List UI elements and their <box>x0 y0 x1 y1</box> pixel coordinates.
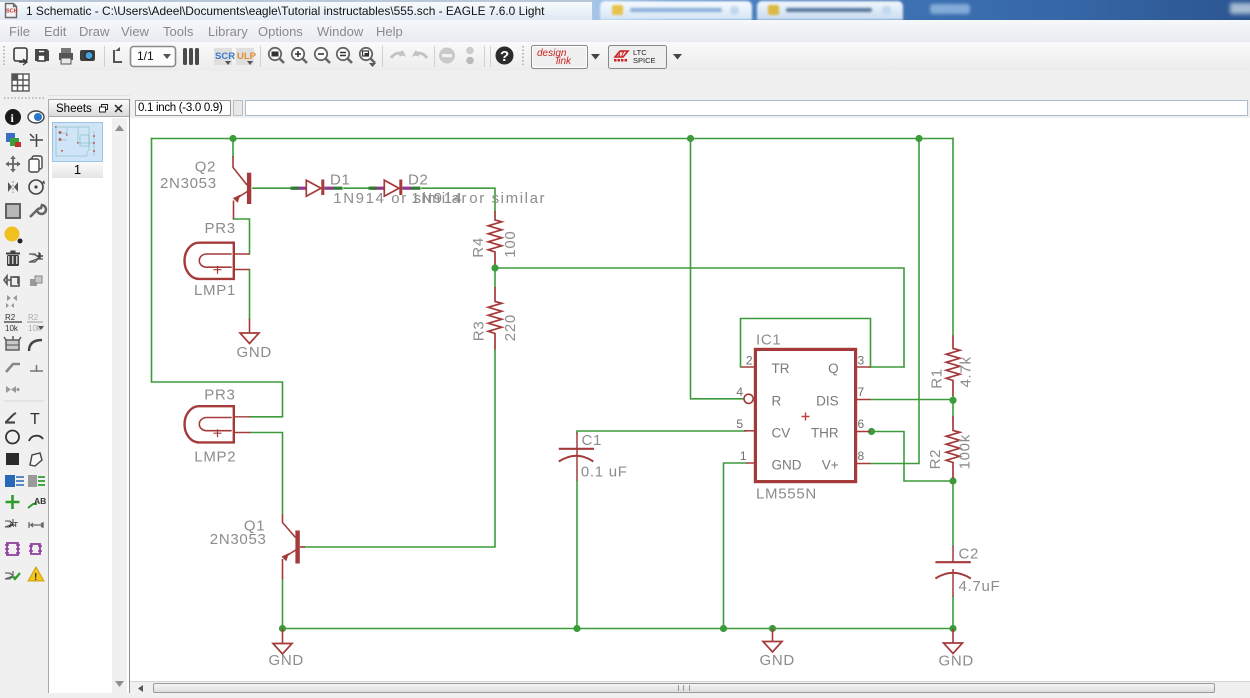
r9: gateswap grayed <box>7 295 17 301</box>
svg-text:0.1 uF: 0.1 uF <box>581 463 628 480</box>
svg-text:IC1: IC1 <box>756 331 781 348</box>
r6: paste <box>5 227 20 242</box>
junction rail at Q1 <box>279 625 286 632</box>
open/new icon <box>14 48 27 61</box>
r18: junction / label <box>6 495 20 509</box>
r7: delete / add <box>6 251 20 267</box>
junction node R4 R3 <box>491 264 498 271</box>
svg-text:SCR: SCR <box>215 51 235 62</box>
svg-text:GND: GND <box>269 652 304 669</box>
wire Q2 collector stub <box>232 139 234 157</box>
IC1 pin stubs left <box>741 367 754 463</box>
svg-text:DIS: DIS <box>816 393 839 408</box>
panel divider <box>129 99 130 693</box>
ground GND at Q1 <box>282 629 284 644</box>
help icon <box>496 47 514 65</box>
wire node row to pin3 column <box>495 268 904 367</box>
capacitor C1 <box>576 433 578 481</box>
r13: wire symbol grayed <box>6 386 16 393</box>
svg-text:47: 47 <box>617 52 625 59</box>
r19: attribute / dimension <box>5 519 16 527</box>
svg-text:GND: GND <box>237 344 272 361</box>
ground GND at IC1 <box>772 629 774 642</box>
junction top rail at V+ column <box>915 135 922 142</box>
zoom redraw <box>337 48 352 63</box>
diode D1 <box>306 180 321 196</box>
svg-text:2: 2 <box>746 353 753 367</box>
wire LMP1 to ground <box>249 270 251 319</box>
design link button <box>532 46 588 69</box>
ground GND at LMP1 <box>249 319 251 334</box>
wire R2 to C2 <box>952 479 954 547</box>
transistor Q2 <box>233 156 251 219</box>
sheet combo <box>131 47 176 67</box>
junction rail at C1 <box>573 625 580 632</box>
wire Q1 emitter to rail <box>282 579 284 629</box>
wire THR pin6 net <box>872 432 954 482</box>
op-amp style IC1 body LM555N <box>755 349 855 481</box>
transistor Q1 <box>283 515 306 580</box>
svg-text:GND: GND <box>772 457 802 472</box>
wire R4 to node junction <box>494 265 496 288</box>
layers icon <box>183 48 199 65</box>
wire top supply rail <box>152 138 954 140</box>
svg-text:5: 5 <box>736 417 743 431</box>
svg-text:R2: R2 <box>28 313 39 322</box>
sheets panel scrollbar <box>112 118 127 693</box>
r21: erc / errors <box>5 571 16 579</box>
wire TR-Q feedback loop <box>741 319 871 368</box>
svg-text:R3: R3 <box>470 321 487 342</box>
diode D2 <box>384 180 399 196</box>
svg-text:?: ? <box>500 48 509 65</box>
svg-text:220: 220 <box>502 314 519 341</box>
SCR button <box>214 48 232 65</box>
wire GND pin1 net <box>724 463 747 629</box>
zoom select <box>360 48 376 67</box>
print icon <box>59 53 73 60</box>
wire reset pin4 net <box>691 139 745 399</box>
svg-text:PR3: PR3 <box>204 387 235 404</box>
wire V+ pin8 net <box>871 139 920 464</box>
r3: move / copy <box>6 156 21 173</box>
junction rail at GND stub <box>769 625 776 632</box>
r2: display / mark <box>6 133 15 142</box>
wire C1 top to CV pin5 <box>577 431 746 433</box>
svg-text:TR: TR <box>772 361 790 376</box>
svg-text:1N914 or similar: 1N914 or similar <box>411 190 546 207</box>
svg-text:GND: GND <box>939 652 974 669</box>
zoom in <box>292 48 307 63</box>
svg-text:CV: CV <box>772 425 791 440</box>
browser behind, right side of title row <box>592 0 1250 20</box>
svg-text:D1: D1 <box>330 172 351 189</box>
svg-text:AT: AT <box>9 520 18 529</box>
separator <box>104 46 106 67</box>
r20: module purple icons <box>5 543 42 555</box>
wire right drop to R1 <box>952 139 954 336</box>
wire DIS pin7 net <box>871 399 954 401</box>
IC1 pin 4 inversion bubble <box>744 394 753 403</box>
capacitor C2 <box>952 546 954 597</box>
svg-text:LM555N: LM555N <box>756 485 817 502</box>
svg-text:D2: D2 <box>408 172 429 189</box>
diode D2 pins <box>369 187 421 190</box>
svg-text:4.7uF: 4.7uF <box>959 578 1001 595</box>
svg-text:!: ! <box>34 572 37 583</box>
svg-text:V+: V+ <box>822 457 839 472</box>
wire R3 to Q1 base <box>304 350 495 548</box>
sheet icon <box>114 50 122 62</box>
resistor R2 <box>946 416 960 479</box>
r16: rect / polygon <box>6 453 19 465</box>
junction rail at C2 <box>949 625 956 632</box>
svg-text:GND: GND <box>760 652 795 669</box>
junction R2 bottom <box>949 477 956 484</box>
r17: bus / net <box>5 475 15 487</box>
svg-text:100k: 100k <box>956 434 973 469</box>
r12: split / invoke <box>6 364 20 372</box>
svg-text:LMP2: LMP2 <box>194 448 236 465</box>
traffic dots grayed <box>466 47 474 55</box>
svg-text:4: 4 <box>736 385 743 399</box>
r5: group / change <box>6 204 20 218</box>
svg-text:C2: C2 <box>959 545 980 562</box>
svg-text:T: T <box>30 411 40 428</box>
IC1 centre plus mark <box>802 413 810 421</box>
svg-text:1/1: 1/1 <box>137 49 154 63</box>
svg-text:AB: AB <box>34 496 46 506</box>
wire Q pin3 extension <box>871 366 905 368</box>
svg-text:1: 1 <box>740 449 747 463</box>
svg-text:R4: R4 <box>470 237 487 258</box>
thumbnail <box>52 122 103 162</box>
svg-text:10k: 10k <box>28 324 42 333</box>
junction top rail at Q2 <box>229 135 236 142</box>
svg-text:R2: R2 <box>927 449 944 470</box>
redo grayed <box>415 51 427 58</box>
svg-text:3: 3 <box>858 353 865 367</box>
stop grayed <box>439 48 455 64</box>
svg-text:2N3053: 2N3053 <box>210 531 267 548</box>
wire Q2 emitter to LMP1 <box>234 219 250 254</box>
grip <box>3 46 5 67</box>
svg-text:SCH: SCH <box>6 9 18 15</box>
svg-text:Q: Q <box>828 361 839 376</box>
wire C2 to bottom rail <box>952 597 954 629</box>
svg-text:LMP1: LMP1 <box>194 282 236 299</box>
svg-text:2N3053: 2N3053 <box>160 175 217 192</box>
svg-text:100: 100 <box>502 231 519 258</box>
svg-text:10k: 10k <box>5 324 19 333</box>
undo grayed <box>391 51 403 58</box>
resistor R4 <box>488 211 502 265</box>
r8: pinswap / replace <box>4 276 18 284</box>
svg-text:ULP: ULP <box>237 51 257 62</box>
svg-text:link: link <box>556 56 572 67</box>
svg-text:4.7k: 4.7k <box>957 356 974 387</box>
junction R1 R2 DIS <box>949 397 956 404</box>
IC1 pin stubs right <box>857 367 871 464</box>
zoom out <box>315 48 330 63</box>
r4: mirror / rotate <box>8 182 18 192</box>
lamp LMP2 <box>185 406 251 442</box>
cam icon <box>80 50 95 61</box>
wire Q2 base to diodes to R4 <box>253 188 495 211</box>
LTC SPICE button <box>609 46 667 69</box>
svg-text:6: 6 <box>858 417 865 431</box>
resistor R1 <box>946 336 960 397</box>
svg-text:8: 8 <box>858 449 865 463</box>
ULP button <box>236 48 254 65</box>
svg-text:R1: R1 <box>929 368 946 389</box>
ground GND at C2 <box>952 629 954 644</box>
r1: info / show <box>5 109 21 125</box>
junction top rail at reset column <box>687 135 694 142</box>
svg-text:C1: C1 <box>582 432 603 449</box>
wire bottom ground rail <box>283 628 954 630</box>
svg-text:THR: THR <box>811 425 839 440</box>
lamp LMP1 <box>185 243 250 279</box>
r14: wire / text <box>6 413 16 422</box>
svg-text:SPICE: SPICE <box>633 56 656 65</box>
svg-text:R2: R2 <box>5 313 16 322</box>
diode D1 pins <box>291 187 343 190</box>
junction THR pin6 <box>868 428 875 435</box>
svg-text:Q2: Q2 <box>195 159 216 176</box>
separator <box>260 46 262 67</box>
wire LMP2 to Q1 collector <box>251 433 283 515</box>
resistor R3 <box>488 287 502 350</box>
r15: circle / arc <box>6 431 19 444</box>
svg-text:7: 7 <box>858 385 865 399</box>
r11: smash / miter <box>6 340 19 350</box>
svg-text:PR3: PR3 <box>205 220 236 237</box>
save icon <box>35 49 49 61</box>
svg-text:R: R <box>772 393 782 408</box>
wire R1 R2 junction column <box>952 396 954 416</box>
wire C1 bottom to rail <box>576 481 578 629</box>
wire left drop to LMP2 <box>152 139 283 417</box>
zoom fit <box>269 48 284 63</box>
junction rail at pin1 column <box>720 625 727 632</box>
